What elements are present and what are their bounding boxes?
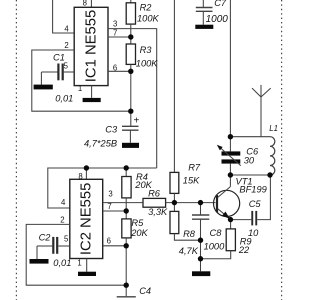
resistor R9: [226, 229, 235, 251]
svg-text:5: 5: [64, 235, 69, 244]
capacitor C7: [196, 8, 213, 25]
svg-text:+: +: [134, 116, 140, 127]
svg-text:10: 10: [248, 228, 259, 238]
ground IC1 pin1: [83, 98, 101, 102]
svg-text:20K: 20K: [130, 228, 148, 238]
wire pin8 IC1 to top: [90, 0, 92, 7]
svg-text:0,01: 0,01: [55, 93, 73, 103]
wire collector up: [229, 175, 231, 187]
wire R5 top lead: [125, 211, 127, 219]
wire C7 top stub: [202, 0, 204, 8]
op-amp (timer) IC2 box: [70, 179, 103, 258]
svg-text:22: 22: [238, 245, 250, 255]
op-amp (timer) IC1 box: [74, 7, 108, 85]
svg-text:IC1 NE555: IC1 NE555: [83, 10, 99, 82]
svg-text:R3: R3: [140, 45, 153, 55]
resistor R7: [170, 172, 179, 193]
frame right dash-dot border: [281, 0, 283, 300]
svg-text:C1: C1: [53, 53, 65, 63]
wire tank bottom: [230, 174, 270, 176]
ground C8: [192, 271, 210, 276]
antenna W1: [252, 85, 271, 137]
ground C7: [195, 25, 213, 29]
wire R8 bottom lead: [174, 234, 200, 241]
svg-text:BF199: BF199: [239, 185, 266, 195]
wire R9 bottom lead: [201, 251, 231, 259]
svg-text:2: 2: [60, 216, 64, 225]
node junction dots: [84, 34, 273, 288]
svg-text:5: 5: [64, 61, 69, 70]
wire pin1 IC1: [91, 86, 93, 98]
svg-text:0,01: 0,01: [53, 258, 71, 268]
wire R2 top stub: [130, 0, 132, 3]
wire R4 bottom lead: [125, 198, 127, 211]
svg-text:4: 4: [64, 25, 69, 34]
ground C1: [34, 85, 53, 90]
resistor R6: [143, 198, 166, 207]
resistor R8: [170, 211, 179, 233]
wire pin3 IC2 to R6: [103, 202, 143, 204]
capacitor C6 (variable): [217, 137, 241, 175]
svg-text:IC2 NE555: IC2 NE555: [78, 183, 94, 255]
svg-text:8: 8: [83, 0, 87, 8]
svg-text:C7: C7: [214, 0, 227, 8]
svg-text:6: 6: [107, 236, 111, 245]
svg-text:100K: 100K: [137, 14, 160, 24]
wire pin6 IC2: [103, 245, 127, 247]
resistor R3: [126, 44, 135, 64]
wire pin2 IC1 loop to C3 node: [32, 50, 131, 111]
wire pin7 IC1: [108, 36, 131, 38]
svg-text:C8: C8: [210, 228, 223, 238]
wire R3 top lead: [130, 37, 132, 44]
svg-text:1000: 1000: [204, 242, 226, 252]
transistor VT1: [214, 187, 240, 220]
wire pin8 IC2: [85, 168, 87, 179]
svg-text:R5: R5: [131, 218, 144, 228]
capacitor C2: [37, 237, 70, 259]
capacitor C4: [117, 296, 136, 298]
svg-text:2: 2: [64, 41, 68, 50]
svg-text:100K: 100K: [136, 58, 159, 68]
resistor R2: [126, 3, 135, 24]
wire tank feed from top: [229, 0, 231, 137]
wire tank top: [230, 136, 270, 138]
capacitor C3 (electrolytic): [122, 126, 139, 143]
svg-text:C5: C5: [249, 199, 262, 209]
wire R7 bottom lead: [173, 193, 175, 202]
svg-text:R6: R6: [148, 188, 161, 198]
svg-text:3,3K: 3,3K: [148, 207, 168, 217]
svg-text:C2: C2: [39, 233, 52, 243]
wire R2 bottom lead: [130, 24, 132, 37]
wire pin2 IC2 bottom rail: [26, 224, 126, 285]
wire pin1 IC2: [86, 259, 88, 272]
wire R4 top lead: [125, 168, 127, 177]
svg-text:3: 3: [108, 189, 112, 198]
wire pin4 IC1 to top: [53, 0, 75, 33]
wire R7 feed from top: [173, 0, 175, 172]
wire pin3 IC1 to IC2 rail: [108, 29, 157, 168]
capacitor C8: [192, 203, 209, 272]
svg-text:6: 6: [113, 63, 117, 72]
svg-text:1: 1: [77, 259, 81, 268]
svg-text:7: 7: [107, 202, 111, 211]
svg-text:7: 7: [113, 29, 117, 38]
svg-text:4,7*25B: 4,7*25B: [84, 139, 117, 149]
wire R3 bottom to C3: [130, 64, 132, 126]
inductor L1: [270, 137, 275, 175]
ground IC2 pin1: [78, 272, 96, 276]
svg-text:R2: R2: [140, 3, 153, 13]
svg-text:4: 4: [61, 198, 66, 207]
svg-text:4,7K: 4,7K: [179, 246, 199, 256]
svg-text:30: 30: [244, 155, 255, 165]
svg-text:15K: 15K: [183, 175, 200, 185]
ground C2: [30, 259, 49, 264]
wire R5 bottom to C4: [125, 238, 127, 296]
capacitor C5: [231, 175, 271, 225]
svg-text:8: 8: [78, 172, 82, 181]
svg-text:R7: R7: [188, 163, 201, 173]
wire R8 top lead: [173, 203, 175, 212]
capacitor C1: [41, 64, 74, 85]
svg-text:1: 1: [78, 84, 82, 93]
svg-text:C3: C3: [105, 124, 118, 134]
ground C3: [122, 143, 139, 148]
wire IC2 supply rail: [48, 168, 157, 208]
svg-text:L1: L1: [269, 124, 278, 133]
wire pin6 IC1: [108, 70, 131, 72]
svg-text:3: 3: [113, 19, 117, 28]
svg-text:R8: R8: [183, 229, 196, 239]
svg-text:1000: 1000: [206, 14, 229, 25]
wire emitter down to R9: [230, 220, 232, 229]
svg-text:C4: C4: [139, 286, 151, 296]
wire R6 to base: [165, 202, 215, 204]
frame left dash-dot border: [15, 0, 17, 300]
resistor R4: [122, 177, 131, 198]
wire pin7 IC2: [103, 210, 127, 212]
resistor R5: [122, 219, 131, 238]
